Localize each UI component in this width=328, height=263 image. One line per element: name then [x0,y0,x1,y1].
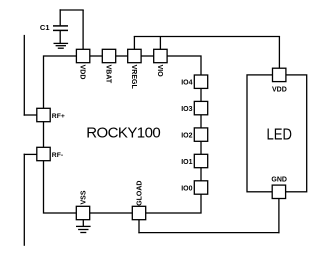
ROCKY100 value label [86,125,160,142]
wire top horizontal C1 net [60,9,84,11]
wire RF- antenna stub [23,154,25,246]
C1 label [40,23,50,32]
svg-text:GND: GND [271,177,287,184]
wire top horizontal to LED VDD [134,36,280,38]
ground symbol (VSS) [76,226,91,232]
svg-text:GLOAD: GLOAD [137,181,144,206]
wire RF+ antenna stub [23,35,25,116]
pin GLOAD (IC bottom) [132,206,145,219]
wire C1 top drop [59,9,61,25]
VREGL pin label [130,65,137,90]
wire RF- horizontal [24,153,38,155]
wire C1 bottom stub [59,30,61,43]
IO1 pin label [181,159,192,166]
wire VIO riser [159,37,161,51]
pin IO0 (IC right) [194,181,207,194]
pin VREGL (IC top) [128,49,141,62]
IC ROCKY100 body [44,56,202,213]
svg-text:VSS: VSS [81,190,88,204]
svg-text:RF-: RF- [52,152,63,159]
svg-text:IO0: IO0 [181,185,192,192]
VDD pin label [79,65,86,80]
svg-text:VREGL: VREGL [130,65,137,90]
RF+ pin label [52,113,65,120]
wire LED GND drop [278,197,280,233]
VSS pin label [81,190,88,204]
pin IO4 (IC right) [194,75,207,88]
IO0 pin label [181,185,192,192]
IO3 pin label [181,106,192,113]
svg-text:VIO: VIO [156,65,163,78]
wire RF+ horizontal [24,114,38,116]
ground symbol (C1) [54,43,69,48]
svg-text:IO2: IO2 [181,133,192,140]
GLOAD pin label [137,181,144,206]
wire bottom horizontal GLOAD to LED GND [138,232,279,234]
svg-text:C1: C1 [40,23,50,32]
pin VSS (IC bottom) [76,206,89,219]
capacitor C1 [53,26,68,31]
svg-text:IO4: IO4 [181,80,192,87]
svg-text:LED: LED [266,126,292,143]
pin VDD (IC top) [76,49,89,62]
pin GND (LED bottom) [272,185,285,198]
pin VIO (IC top) [154,49,167,62]
LED label [266,126,292,143]
svg-text:IO3: IO3 [181,106,192,113]
svg-text:VDD: VDD [79,65,86,80]
pin IO2 (IC right) [194,128,207,141]
pin IO3 (IC right) [194,101,207,114]
LED block body [247,75,307,192]
svg-text:VDD: VDD [272,87,287,94]
svg-text:RF+: RF+ [52,113,65,120]
pin RF+ (IC left) [37,108,50,121]
GND label (LED) [271,177,287,184]
pin RF- (IC left) [37,147,50,160]
pin IO1 (IC right) [194,154,207,167]
svg-text:IO1: IO1 [181,159,192,166]
pin VBAT (IC top) [102,49,115,62]
svg-text:VBAT: VBAT [104,65,111,84]
pin VDD (LED top) [273,68,286,81]
RF- pin label [52,152,63,159]
svg-text:ROCKY100: ROCKY100 [86,125,160,142]
VBAT pin label [104,65,111,84]
VDD label (LED) [272,87,287,94]
wire VREGL riser [133,37,135,51]
wire LED VDD riser [278,37,280,71]
wire GLOAD drop [138,219,140,233]
wire VDD riser to C1 net [82,10,84,50]
IO4 pin label [181,80,192,87]
IO2 pin label [181,133,192,140]
wire VSS ground stub [82,219,84,226]
VIO pin label [156,65,163,78]
